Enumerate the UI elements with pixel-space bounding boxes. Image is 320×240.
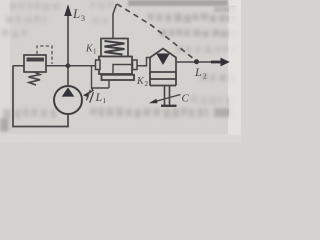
pump P1 (variable displacement) [54,86,82,114]
wire: pilot branch down to pump stroke control [92,66,110,88]
K1 left port tab [96,60,101,70]
stroke-control arrow into pump [87,88,94,95]
relief valve pilot line (dashed) [37,46,52,64]
arrowhead L3 [64,4,72,16]
relief valve piston bar [27,58,45,62]
dashed linkage line [117,4,197,61]
relief valve spring [29,72,41,85]
K1 lower slide box [102,75,135,80]
wire: tank return line (relief outlet down, along bottom, to pump suction) [13,66,68,127]
K1 spring box [101,39,128,57]
wire: K1 to K2 [137,58,150,66]
pump flow triangle [62,87,75,96]
K2 body plates [150,72,176,86]
K2 poppet housing (pentagon) [150,49,176,73]
K1 right port tab [133,60,138,70]
wire: main rail junction to K1 [68,65,96,67]
arrow L2 [211,61,221,64]
K1 pilot stem [113,4,117,39]
branch line L3 (to gauge/other circuit) [67,16,69,66]
adjustment arrow C [155,95,181,102]
K1 internal step [113,65,132,74]
wire: pump outlet riser [67,66,69,86]
K1 valve body [99,57,132,75]
relief valve body [24,55,46,72]
K2 poppet cone [156,54,169,66]
paper background [0,0,241,142]
node: junction dot at pump outlet [66,63,71,68]
paper grain overlay [0,0,241,142]
wire: K2 outlet to L2 [176,61,213,63]
K2 plunger legs [165,86,170,106]
wire: relief valve inlet segment on main rail [13,65,68,67]
K2 foot plate [161,105,177,107]
K1 spring [105,41,125,55]
node: junction dot L2 [194,59,199,64]
wire: K1 lower port drop [108,80,110,88]
stroke-control tick marks [86,90,93,103]
